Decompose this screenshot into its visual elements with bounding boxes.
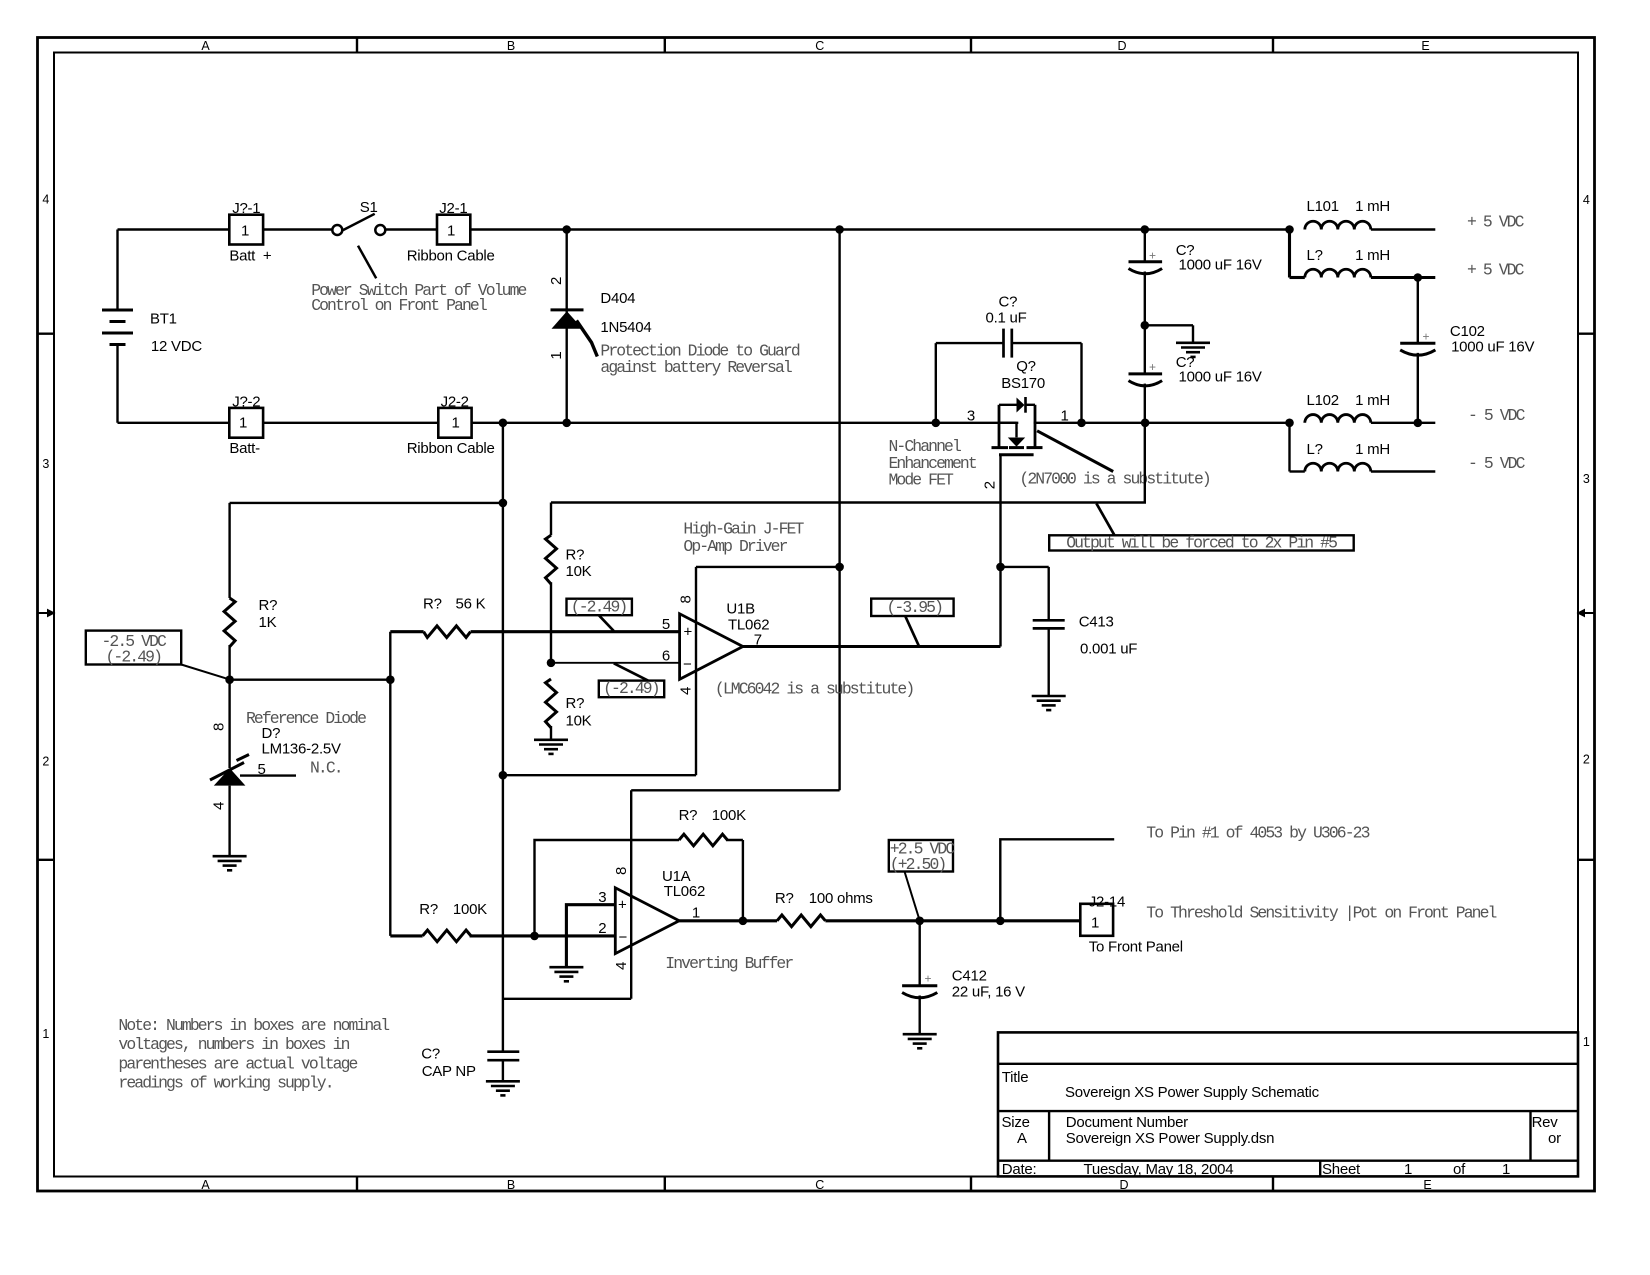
svg-text:J2-1: J2-1 [439,200,467,217]
svg-text:D: D [1117,39,1126,53]
ground below C412 [903,1034,937,1048]
note n-channel fet [889,437,977,490]
svg-text:1K: 1K [259,614,277,631]
ground below R10K [534,740,568,754]
border arrow left [38,609,56,618]
svg-text:J2-2: J2-2 [441,393,469,410]
wire net R10K top y502 to rail [551,423,1145,503]
note high-gain jfet [683,520,804,556]
svg-text:4: 4 [211,802,228,810]
node dot to-pin1 tap [996,917,1005,926]
svg-text:+: + [1149,360,1156,374]
svg-text:J?-2: J?-2 [232,393,260,410]
svg-text:3: 3 [967,407,975,424]
svg-text:L102: L102 [1307,392,1339,409]
svg-text:Ribbon Cable: Ribbon Cable [407,248,495,265]
border zone letters bottom [201,1178,1431,1192]
svg-text:To Threshold Sensitivity |Pot: To Threshold Sensitivity |Pot on Front P… [1146,904,1496,923]
capacitor C? 1000uF lower [1129,325,1262,423]
svg-text:1: 1 [1502,1161,1510,1178]
wire gate lead Q? pin2 [999,455,1001,647]
svg-text:Control on Front Panel: Control on Front Panel [311,296,487,315]
svg-text:4: 4 [678,687,695,695]
note protection diode [600,342,799,377]
svg-text:voltages, numbers in boxes in: voltages, numbers in boxes in [118,1035,349,1054]
svg-text:Sovereign XS Power Supply.dsn: Sovereign XS Power Supply.dsn [1066,1130,1274,1147]
svg-text:1: 1 [692,905,700,922]
border zone ticks bottom [357,1177,1273,1192]
border zone letters top [201,39,1429,53]
svg-text:1: 1 [42,1027,49,1041]
svg-text:To Front Panel: To Front Panel [1089,938,1183,955]
svg-text:+: + [684,624,693,641]
svg-text:Tuesday, May 18, 2004: Tuesday, May 18, 2004 [1084,1161,1234,1178]
svg-text:1: 1 [241,222,249,239]
svg-text:E: E [1423,1178,1431,1192]
wire J?-1 to S1 [263,228,332,230]
wire mid ground stub [1145,325,1193,342]
svg-text:2: 2 [982,481,999,489]
resistor R? 10K upper [546,503,592,663]
node dot bottom rail D404 [562,419,571,428]
svg-text:D404: D404 [600,290,635,307]
svg-text:2: 2 [548,277,565,285]
node dot L? C102 [1414,273,1423,282]
svg-text:of: of [1453,1161,1466,1178]
svg-text:L?: L? [1307,441,1323,458]
svg-text:1: 1 [1091,914,1099,931]
svg-text:Note: Numbers in boxes are nom: Note: Numbers in boxes are nominal [118,1016,389,1035]
svg-text:BT1: BT1 [150,311,177,328]
wire to pin1 stub [1000,839,1114,921]
inductor L101 [1305,198,1436,230]
wire U1A output [679,919,777,922]
svg-text:1: 1 [239,415,247,432]
connector J2-1 [407,200,495,265]
diode D404 [548,230,652,423]
svg-text:Op-Amp Driver: Op-Amp Driver [683,537,787,556]
svg-text:1: 1 [1404,1161,1412,1178]
border zone ticks top [357,38,1273,53]
resistor R? 1K [224,503,277,680]
note power switch [311,281,526,315]
svg-text:1 mH: 1 mH [1355,392,1390,409]
callout box output forced [1049,503,1354,552]
svg-text:100K: 100K [453,901,487,918]
resistor R? 56K [390,596,679,638]
wire bottom rail left [118,422,230,424]
svg-text:L?: L? [1307,247,1323,264]
svg-text:C413: C413 [1079,614,1114,631]
svg-text:R?: R? [423,596,442,613]
svg-text:E: E [1421,39,1429,53]
svg-text:Size: Size [1002,1114,1030,1131]
svg-text:100 ohms: 100 ohms [809,890,873,907]
svg-text:+ 5 VDC: + 5 VDC [1467,213,1525,232]
svg-text:D?: D? [262,725,281,742]
svg-text:1000 uF 16V: 1000 uF 16V [1179,257,1262,274]
node dot top rail D404 [562,225,571,234]
wire U1A supply loop y790 [631,789,839,791]
wire U1B output [743,645,1001,648]
capacitor C413 [1033,614,1138,696]
svg-text:C412: C412 [952,968,987,985]
node dot L102 left [1285,419,1294,428]
svg-text:1: 1 [1583,1035,1590,1049]
svg-text:Sovereign XS Power Supply Sche: Sovereign XS Power Supply Schematic [1065,1084,1320,1101]
transistor Q? BS170 [967,358,1069,489]
svg-text:+: + [1149,249,1156,263]
ground below C413 [1032,696,1066,710]
svg-text:R?: R? [566,546,585,563]
svg-text:Title: Title [1002,1069,1029,1086]
svg-text:- 5 VDC: - 5 VDC [1468,406,1526,425]
svg-text:6: 6 [662,647,670,664]
svg-text:+ 5 VDC: + 5 VDC [1467,261,1525,280]
svg-text:BS170: BS170 [1001,375,1045,392]
node dot C? junction [1141,321,1150,330]
capacitor C? CAP NP [421,1046,519,1081]
svg-text:1 mH: 1 mH [1355,441,1390,458]
node dot x839 y567 [835,563,844,572]
svg-text:2: 2 [598,920,606,937]
svg-text:+: + [925,972,932,986]
resistor R? 100K input [390,901,615,942]
node dot x390 y679 [386,675,395,684]
svg-text:D: D [1119,1178,1128,1192]
svg-text:R?: R? [419,901,438,918]
svg-text:5: 5 [662,616,670,633]
svg-text:A: A [201,39,210,53]
svg-text:C102: C102 [1450,323,1485,340]
border zone numbers right [1583,193,1590,1049]
svg-text:R?: R? [566,695,585,712]
wire +12 feed vertical x839 [838,230,840,791]
svg-text:0.1 uF: 0.1 uF [986,309,1027,326]
resistor R? 10K lower [546,679,592,739]
svg-text:1: 1 [451,415,459,432]
connector J?-2 [229,393,263,457]
svg-text:3: 3 [42,457,49,471]
node dot feedback tap [530,932,539,941]
svg-text:against battery Reversal: against battery Reversal [600,358,792,377]
svg-text:C: C [815,39,824,53]
wire bottom rail to L102 [472,422,1290,424]
wire J?-2 to J2-2 [263,422,438,424]
wire top rail left [118,228,230,230]
svg-text:56 K: 56 K [456,596,486,613]
node dot x503 y503 [499,499,508,508]
op-amp U1A [598,867,705,970]
svg-text:To Pin #1 of 4053 by U306-23: To Pin #1 of 4053 by U306-23 [1146,823,1369,842]
svg-text:100K: 100K [712,807,746,824]
wire top rail to inductors [470,228,1289,230]
node dot x503 y775 [499,771,508,780]
ground mid rail [1176,343,1210,357]
svg-text:1000 uF 16V: 1000 uF 16V [1179,369,1262,386]
ground below CAP NP [486,1081,520,1095]
svg-text:J?-1: J?-1 [232,200,260,217]
svg-text:Inverting Buffer: Inverting Buffer [665,954,793,973]
capacitor C412 [902,921,1025,1034]
wire U1A pin3 [566,905,615,967]
svg-text:C: C [815,1178,824,1192]
wire U1A pin line x631 [630,790,632,999]
border zone ticks right [1578,334,1595,860]
svg-text:R?: R? [679,807,698,824]
svg-text:Q?: Q? [1016,358,1036,375]
svg-text:1: 1 [1061,407,1069,424]
svg-text:J2-14: J2-14 [1089,894,1125,911]
inductor L102 [1305,392,1436,423]
wire U1A pin4 y999 [503,998,631,1000]
svg-text:parentheses are actual voltage: parentheses are actual voltage [118,1054,357,1073]
svg-text:Batt +: Batt + [229,248,272,265]
node dot FET drain rail [1077,419,1086,428]
svg-text:(2N7000 is a substitute): (2N7000 is a substitute) [1019,470,1210,489]
connector J2-14 [1080,894,1183,956]
svg-text:−: − [683,656,692,673]
svg-text:1: 1 [548,352,565,360]
capacitor C? 1000uF upper [1129,230,1262,326]
capacitor C? 0.1uF [936,294,1082,423]
voltage box +2.5 VDC [889,839,956,919]
svg-text:4: 4 [1583,193,1590,207]
svg-text:+: + [618,897,627,914]
svg-text:Document Number: Document Number [1066,1114,1188,1131]
connector J?-1 [229,200,272,265]
wire S1 to J2-1 [385,228,437,230]
svg-text:Sheet: Sheet [1322,1161,1361,1178]
svg-text:(-2.49): (-2.49) [106,647,162,666]
node dot C102 bottom [1414,419,1423,428]
wire battery minus vertical x503 [502,423,504,1051]
svg-text:C?: C? [999,294,1018,311]
svg-text:(-2.49): (-2.49) [603,679,659,698]
svg-text:8: 8 [211,723,228,731]
svg-text:R?: R? [775,890,794,907]
svg-text:High-Gain J-FET: High-Gain J-FET [683,520,804,539]
svg-text:N.C.: N.C. [310,759,342,778]
border arrow right [1577,609,1595,618]
wire U1B pin4 y775 [503,774,696,776]
note voltages [118,1016,389,1092]
svg-text:4: 4 [42,193,49,207]
node dot feedback output [739,917,748,926]
svg-text:Batt-: Batt- [229,440,260,457]
svg-text:10K: 10K [566,713,592,730]
svg-text:B: B [507,1178,515,1192]
node dot bottom rail C? [1141,419,1150,428]
border zone ticks left [38,334,55,860]
wire feedback loop [535,840,680,936]
svg-text:1 mH: 1 mH [1355,198,1390,215]
svg-text:A: A [1017,1130,1027,1147]
voltage box (-2.49) pin5 [567,597,632,631]
svg-text:C?: C? [421,1046,440,1063]
leader 2N7000 [1037,431,1113,472]
svg-text:Date:: Date: [1002,1161,1037,1178]
resistor R? 100 ohms [775,890,873,927]
svg-text:2: 2 [42,755,49,769]
svg-text:−: − [619,929,628,946]
svg-text:4: 4 [613,962,630,970]
svg-text:L101: L101 [1307,198,1339,215]
svg-text:8: 8 [613,867,630,875]
svg-text:0.001 uF: 0.001 uF [1080,640,1137,657]
inductor L? fourth [1290,423,1436,472]
node dot FET source rail [932,419,941,428]
svg-text:Mode FET: Mode FET [889,471,955,490]
svg-text:B: B [507,39,515,53]
svg-text:1000 uF 16V: 1000 uF 16V [1451,339,1534,356]
svg-text:1N5404: 1N5404 [600,319,651,336]
node dot top rail x839 [835,225,844,234]
node dot top rail C? [1141,225,1150,234]
capacitor C102 [1400,278,1534,423]
wire net R1K top y503 [230,502,503,504]
svg-text:U1B: U1B [726,601,755,618]
voltage box -2.5 VDC [86,631,229,680]
svg-text:(LMC6042 is a substitute): (LMC6042 is a substitute) [715,680,913,699]
svg-text:10K: 10K [566,563,592,580]
svg-text:LM136-2.5V: LM136-2.5V [262,741,341,758]
svg-text:1 mH: 1 mH [1355,247,1390,264]
node dot C412 tap [915,917,924,926]
border zone numbers left [42,193,49,1042]
title block [998,1032,1578,1178]
svg-text:(-2.49): (-2.49) [571,597,627,616]
inductor L? second [1290,230,1436,278]
wire C413 branch [1001,567,1049,619]
node dot L101 left [1285,225,1294,234]
svg-text:Output will be forced to 2x Pi: Output will be forced to 2x Pin #5 [1066,533,1337,552]
svg-text:+: + [1423,330,1430,344]
svg-text:8: 8 [678,595,695,603]
resistor R? 100K feedback [679,807,746,921]
svg-text:TL062: TL062 [664,883,705,900]
svg-text:R?: R? [259,597,278,614]
wire x390 vertical [389,632,391,936]
node dot bottom rail x503 [499,419,508,428]
reference diode D? LM136-2.5V [210,680,366,856]
svg-text:(-3.95): (-3.95) [887,598,943,617]
svg-text:3: 3 [1583,472,1590,486]
wire y679 R1K to x390 [230,679,391,681]
svg-text:22 uF, 16 V: 22 uF, 16 V [952,984,1025,1001]
voltage box (-3.95) [871,598,953,646]
ground below D? [213,856,247,870]
svg-text:or: or [1548,1130,1561,1147]
node dot pin2 y567 [996,563,1005,572]
svg-text:A: A [201,1178,210,1192]
svg-text:CAP NP: CAP NP [422,1063,476,1080]
svg-text:5: 5 [258,761,266,778]
ground U1A pin3 [549,967,583,981]
svg-text:12 VDC: 12 VDC [151,338,202,355]
svg-text:2: 2 [1583,753,1590,767]
svg-text:TL062: TL062 [728,617,769,634]
svg-text:Rev: Rev [1532,1114,1559,1131]
svg-text:(+2.50): (+2.50) [890,855,946,874]
node dot pin6 junction [547,659,556,668]
connector J2-2 [407,393,495,457]
switch S1 [332,199,385,278]
svg-text:readings of working supply.: readings of working supply. [118,1073,332,1092]
wire pin6 [551,662,680,664]
wire U1B pin8 supply y567 [696,566,840,568]
svg-text:1: 1 [447,222,455,239]
op-amp U1B [662,567,769,775]
voltage box (-2.49) pin6 [599,663,664,698]
svg-text:S1: S1 [360,199,378,216]
svg-text:- 5 VDC: - 5 VDC [1468,454,1526,473]
svg-text:Ribbon Cable: Ribbon Cable [407,440,495,457]
node dot R1K bottom [225,675,234,684]
battery BT1 [102,230,202,423]
